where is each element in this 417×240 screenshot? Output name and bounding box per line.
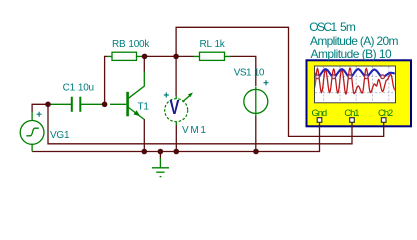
svg-text:VG1: VG1 — [50, 130, 70, 141]
svg-text:VM1: VM1 — [182, 125, 208, 136]
svg-text:Amplitude (A) 20m: Amplitude (A) 20m — [310, 34, 398, 48]
svg-text:RB 100k: RB 100k — [112, 39, 150, 50]
svg-text:VS1 10: VS1 10 — [234, 68, 265, 79]
svg-text:Amplitude (B) 10: Amplitude (B) 10 — [311, 47, 392, 61]
svg-text:OSC15m: OSC15m — [309, 20, 356, 34]
svg-text:T1: T1 — [138, 102, 150, 113]
svg-text:RL 1k: RL 1k — [200, 39, 226, 50]
svg-text:V: V — [169, 96, 179, 119]
svg-text:C1 10u: C1 10u — [63, 82, 94, 93]
